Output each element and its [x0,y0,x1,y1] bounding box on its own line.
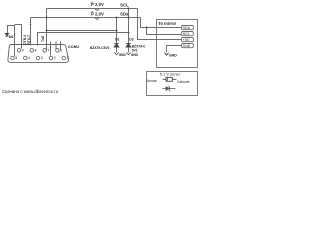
svg-text:4: 4 [28,56,30,60]
svg-text:SCL: SCL [183,32,190,36]
svg-text:To mirror: To mirror [158,21,176,26]
svg-text:2: 2 [54,56,56,60]
svg-text:SCL: SCL [120,3,129,8]
svg-text:5.1 V Zener: 5.1 V Zener [160,72,181,77]
svg-text:7: 7 [47,49,49,53]
svg-text:D2: D2 [129,38,133,42]
svg-text:5V1: 5V1 [132,49,138,53]
svg-text:GND: GND [119,53,127,57]
svg-text:D6: D6 [9,35,14,39]
svg-text:+5V: +5V [183,38,190,42]
svg-text:SDa: SDa [183,26,190,30]
svg-text:1: 1 [66,56,68,60]
svg-text:GND: GND [169,54,177,58]
svg-text:COM1: COM1 [68,44,80,49]
svg-text:+5: +5 [90,10,94,14]
svg-text:Скачано с www.dbservice.ru: Скачано с www.dbservice.ru [2,89,59,94]
svg-text:TxD: TxD [41,35,45,42]
svg-text:8: 8 [35,49,37,53]
svg-text:5: 5 [15,56,17,60]
svg-text:Cathode: Cathode [177,80,190,84]
svg-text:+5: +5 [90,1,94,5]
svg-text:D1: D1 [115,38,119,42]
svg-text:SDa: SDa [120,12,129,17]
svg-text:BZX79-C5V1: BZX79-C5V1 [90,46,110,50]
svg-text:Anode: Anode [147,79,157,83]
svg-text:GnD: GnD [183,44,191,48]
svg-text:GND: GND [131,53,139,57]
svg-text:3: 3 [41,56,43,60]
svg-text:RTS-7: RTS-7 [27,35,31,45]
svg-text:9: 9 [22,49,24,53]
svg-text:6: 6 [60,49,62,53]
